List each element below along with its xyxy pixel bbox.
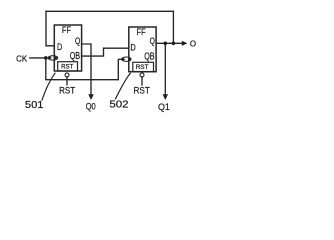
wire CK branch down and to clock of 502 [46,58,123,80]
svg-text:Q: Q [150,36,155,47]
leader line 502 [116,73,131,99]
svg-text:FF: FF [137,27,146,38]
wire top feedback rail [46,10,173,12]
svg-text:QB: QB [144,51,155,62]
RST sub-box of 502 [133,62,154,71]
arrowhead Q1 [163,94,168,100]
svg-text:D: D [57,42,62,53]
svg-text:RST: RST [59,86,75,97]
svg-text:FF: FF [62,25,71,36]
reset bubble of 502 [140,73,144,77]
wire QB of 501 to D of 502 [82,48,129,56]
svg-text:QB: QB [70,51,81,62]
RST sub-box of 501 [58,62,78,71]
wire Q of 502 to O arrow [156,42,182,44]
wire CK input [30,57,50,59]
clock symbol ellipse of 502 [122,57,131,61]
arrowhead clock 501 inner tip [55,56,58,59]
clock symbol ellipse of 501 [49,56,58,60]
arrowhead clock 502 inner tip [128,58,131,61]
svg-text:Q: Q [75,36,80,47]
wire feedback right leg from Q of 502 [172,11,174,43]
wire RST stub of 502 [141,77,143,85]
wire Q1 branch down [164,43,166,94]
reset bubble of 501 [65,73,69,77]
arrowhead Q0 [88,94,93,100]
leader line 501 [42,73,55,100]
junction dot CK branch [44,56,48,60]
wire Q of 501 down to Q0 arrow [82,44,91,94]
flip-flop U501 box [54,25,81,71]
arrowhead O output [182,41,188,46]
junction dot feedback branch [172,42,176,46]
svg-text:Q1: Q1 [158,102,170,112]
svg-text:Q0: Q0 [86,102,96,112]
junction dot Q1 branch [164,42,168,46]
wire RST stub of 501 [66,77,68,85]
svg-text:RST: RST [136,64,149,71]
svg-text:RST: RST [61,63,73,70]
svg-text:501: 501 [25,99,44,111]
svg-text:O: O [190,39,197,49]
flip-flop U502 box [129,27,156,72]
wire feedback left leg down to D of 501 [46,11,54,46]
svg-text:D: D [130,43,135,54]
svg-text:502: 502 [109,99,128,111]
svg-text:CK: CK [16,55,28,64]
arrowhead clock 501 [48,56,52,60]
svg-text:RST: RST [134,85,151,96]
arrowhead clock 502 [122,57,126,61]
